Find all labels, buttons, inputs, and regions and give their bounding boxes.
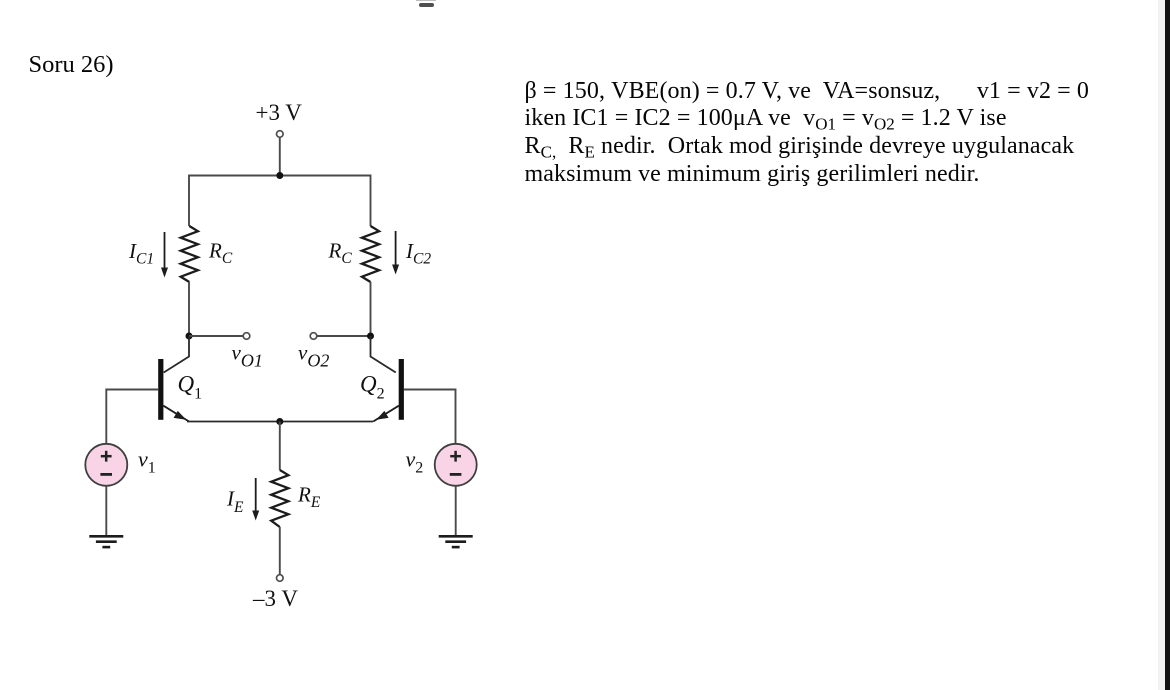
+3V supply terminal [277, 131, 284, 138]
label v2 [406, 447, 424, 477]
label vO2 [298, 341, 329, 371]
wire +3V terminal to top rail [279, 138, 281, 176]
right edge black bar [1158, 0, 1165, 690]
ground left [89, 536, 123, 547]
svg-text:–3 V: –3 V [252, 586, 298, 611]
terminal vO2 [310, 333, 317, 340]
resistor RE [271, 470, 288, 527]
title "Soru 26)" [29, 51, 114, 79]
wire stub to vO2 terminal [317, 335, 370, 337]
svg-text:RC: RC [208, 239, 233, 268]
label Q2 [360, 372, 385, 403]
svg-text:IC2: IC2 [405, 239, 431, 268]
label +3 V [256, 100, 303, 125]
label IC1 [128, 239, 154, 268]
arrow IE current [252, 478, 259, 521]
label -3 V [252, 586, 298, 611]
svg-text:Q2: Q2 [360, 372, 385, 403]
wire stub to vO1 terminal [189, 335, 243, 337]
wire collector Q1 [164, 336, 189, 373]
label Q1 [178, 372, 203, 403]
top scrollbar dash [416, 0, 436, 1]
svg-text:IE: IE [226, 487, 244, 517]
wire RE to -3V terminal [279, 527, 281, 574]
svg-text:IC1: IC1 [128, 239, 154, 268]
svg-text:RE: RE [297, 483, 321, 512]
node collector Q2 [367, 333, 374, 340]
wire RC right to collector node [370, 282, 372, 336]
label RE [297, 483, 321, 512]
svg-text:v1: v1 [138, 447, 156, 477]
svg-text:RC: RC [328, 239, 353, 268]
resistor RC right [362, 226, 379, 282]
wire v2 to ground [455, 486, 457, 535]
label RC right [328, 239, 353, 268]
node collector Q1 [186, 333, 193, 340]
wire top rail [189, 176, 371, 227]
resistor RC left [181, 226, 198, 282]
arrow IC2 current [392, 231, 399, 275]
emitter Q1 with arrow [163, 406, 189, 422]
label IE [226, 487, 244, 517]
svg-text:+3 V: +3 V [256, 100, 303, 125]
problem text paragraph [525, 78, 1090, 189]
arrow IC1 current [161, 232, 168, 278]
emitter Q2 with arrow [373, 406, 399, 422]
svg-text:Q1: Q1 [178, 372, 203, 403]
transistor Q1 base bar [158, 359, 163, 420]
transistor Q2 base bar [399, 359, 404, 420]
wire emitter node to RE [279, 422, 281, 471]
emitter rail [187, 421, 373, 423]
node emitter junction [276, 418, 283, 425]
terminal vO1 [243, 333, 250, 340]
wire base Q2 [404, 390, 456, 444]
-3V supply terminal [277, 575, 284, 582]
svg-text:vO2: vO2 [298, 341, 329, 371]
node top supply junction [276, 172, 283, 179]
source v2 [435, 444, 477, 486]
wire RC left to collector node [188, 282, 190, 336]
wire base Q1 [106, 390, 158, 444]
ground right [439, 536, 473, 547]
label RC left [208, 239, 233, 268]
source v1 [85, 444, 127, 486]
label vO1 [232, 341, 263, 371]
label v1 [138, 447, 156, 477]
label IC2 [405, 239, 431, 268]
wire collector Q2 [371, 336, 396, 373]
wire v1 to ground [105, 486, 107, 535]
svg-text:v2: v2 [406, 447, 424, 477]
svg-text:vO1: vO1 [232, 341, 263, 371]
